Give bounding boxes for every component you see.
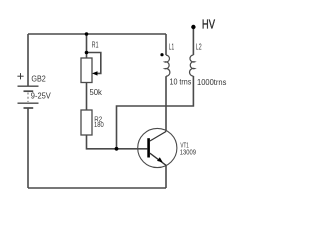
svg-text:R1: R1 — [92, 41, 99, 50]
svg-text:L2: L2 — [196, 42, 202, 51]
svg-text:180: 180 — [94, 120, 104, 129]
wire from top junction down to R1 — [86, 34, 88, 58]
wire left from battery to bottom — [27, 108, 29, 188]
wire emitter down to bottom rail — [165, 165, 167, 188]
transistor VT1 circle — [138, 128, 177, 167]
battery dashed cell link — [27, 93, 29, 103]
wire L1 top from top rail — [165, 34, 167, 55]
node junction dot top rail / R1 — [85, 32, 89, 36]
node junction dot R1 wiper — [85, 51, 89, 55]
svg-text:9-25V: 9-25V — [31, 91, 52, 100]
wire left from top corner to battery — [27, 34, 29, 86]
wire from R2 bottom to base of VT1 — [87, 135, 148, 149]
resistor R2 body — [81, 110, 92, 135]
wire L2 bottom return to base node — [117, 76, 194, 149]
svg-text:13009: 13009 — [180, 149, 196, 156]
R1 wiper arrowhead — [92, 71, 98, 75]
inductor L2 winding — [190, 55, 195, 76]
svg-text:GB2: GB2 — [31, 75, 46, 84]
transistor VT1 collector lead — [150, 132, 166, 142]
node junction dot base — [115, 147, 119, 151]
transistor VT1 base bar — [147, 138, 150, 157]
wire HV terminal down to L2 — [192, 28, 194, 55]
svg-text:50k: 50k — [90, 88, 103, 97]
battery GB2 plates — [18, 86, 39, 108]
wire bottom from left to emitter — [28, 187, 166, 189]
resistor R1 body (potentiometer) — [81, 58, 92, 83]
transistor VT1 emitter arrowhead — [157, 157, 163, 162]
svg-text:1000trns: 1000trns — [197, 78, 226, 87]
inductor L1 winding — [165, 55, 170, 76]
transistor VT1 emitter lead — [150, 153, 166, 165]
svg-text:L1: L1 — [169, 42, 175, 51]
node L1 phase dot — [160, 53, 163, 56]
wire top from battery+ to L1 — [28, 33, 166, 35]
svg-text:HV: HV — [202, 17, 215, 32]
wire L1 bottom to collector — [165, 76, 167, 131]
svg-text:10 trns: 10 trns — [170, 78, 192, 87]
wire from R1 bottom to R2 top — [86, 83, 88, 111]
wire R1 wiper feedback loop — [87, 53, 101, 74]
node HV terminal dot — [191, 25, 195, 29]
battery plus sign — [17, 73, 23, 79]
